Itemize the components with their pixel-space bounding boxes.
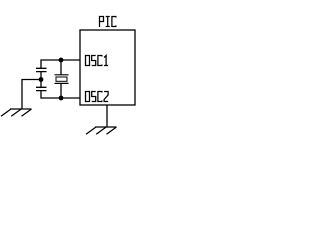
capacitor C2	[36, 80, 47, 91]
wire from PIC bottom to right ground	[106, 105, 108, 127]
crystal X1 symbol	[55, 75, 69, 84]
junction dot crystal bottom	[59, 96, 64, 101]
junction dot at C1/C2 midpoint	[39, 77, 44, 82]
ground GND left	[1, 109, 32, 116]
wire OSC1 net (top)	[41, 60, 80, 68]
junction dot crystal top	[59, 58, 64, 63]
ground GND right	[86, 127, 117, 134]
label PIC	[100, 17, 116, 28]
capacitor C1	[36, 68, 47, 79]
pin label OSC1	[86, 56, 109, 66]
pin label OSC2	[86, 92, 109, 102]
wire OSC2 net (bottom)	[41, 91, 80, 99]
wire from midpoint to left ground	[22, 80, 41, 110]
crystal X1 branch wires	[60, 60, 62, 98]
IC box U1 (PIC)	[80, 30, 135, 105]
